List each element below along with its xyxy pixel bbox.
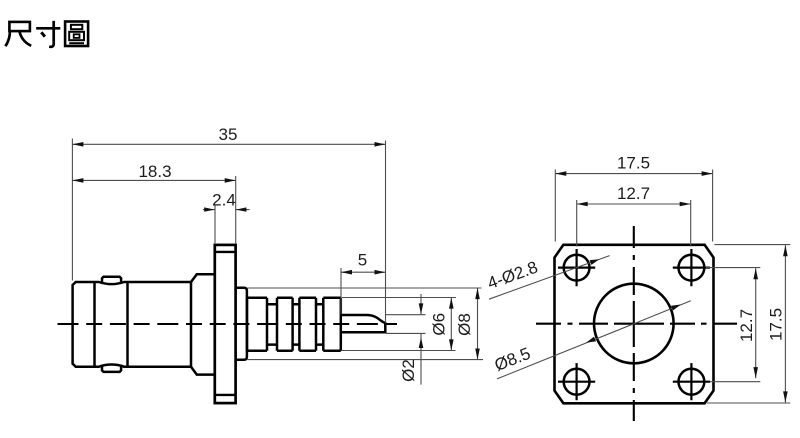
- svg-text:17.5: 17.5: [617, 154, 650, 173]
- svg-text:Ø6: Ø6: [429, 313, 448, 336]
- svg-text:12.7: 12.7: [737, 309, 756, 342]
- svg-text:Ø8: Ø8: [455, 313, 474, 336]
- svg-text:2.4: 2.4: [212, 191, 236, 210]
- svg-text:35: 35: [219, 125, 238, 144]
- svg-text:17.5: 17.5: [767, 308, 786, 341]
- svg-text:18.3: 18.3: [138, 162, 171, 181]
- svg-text:Ø2: Ø2: [399, 359, 418, 382]
- svg-text:5: 5: [358, 251, 367, 270]
- svg-text:12.7: 12.7: [617, 184, 650, 203]
